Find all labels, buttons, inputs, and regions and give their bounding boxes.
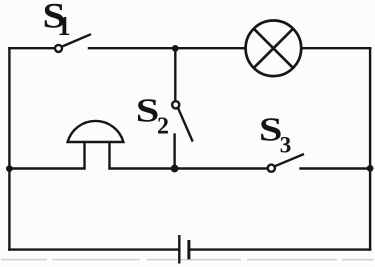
lamp	[246, 21, 302, 77]
wire top-left segment	[9, 47, 55, 49]
svg-text:2: 2	[157, 114, 169, 140]
node junction top	[172, 45, 179, 52]
wire middle-center segment	[110, 167, 268, 169]
wire bottom-right segment	[189, 248, 370, 250]
node junction S2-bottom	[171, 165, 179, 173]
wire top-right segment	[301, 47, 370, 49]
wire middle-right segment	[301, 167, 371, 169]
wire S2 branch lower	[173, 135, 175, 169]
node junction right	[367, 165, 374, 172]
switch S2	[172, 101, 193, 141]
bell	[68, 121, 124, 169]
switch S1	[55, 34, 91, 52]
wire bottom-left segment	[9, 248, 179, 250]
svg-text:1: 1	[57, 11, 70, 41]
svg-text:S: S	[136, 92, 160, 129]
wire middle-left segment	[9, 167, 84, 169]
wire right vertical	[369, 48, 371, 249]
wire S2 branch upper	[174, 48, 176, 101]
svg-text:3: 3	[280, 133, 292, 158]
switch S3	[268, 154, 304, 172]
scan ghost line bottom	[1, 259, 374, 261]
wire top-middle segment	[89, 47, 246, 49]
node junction left	[6, 165, 13, 172]
battery	[179, 235, 189, 264]
wire left vertical	[8, 48, 10, 249]
